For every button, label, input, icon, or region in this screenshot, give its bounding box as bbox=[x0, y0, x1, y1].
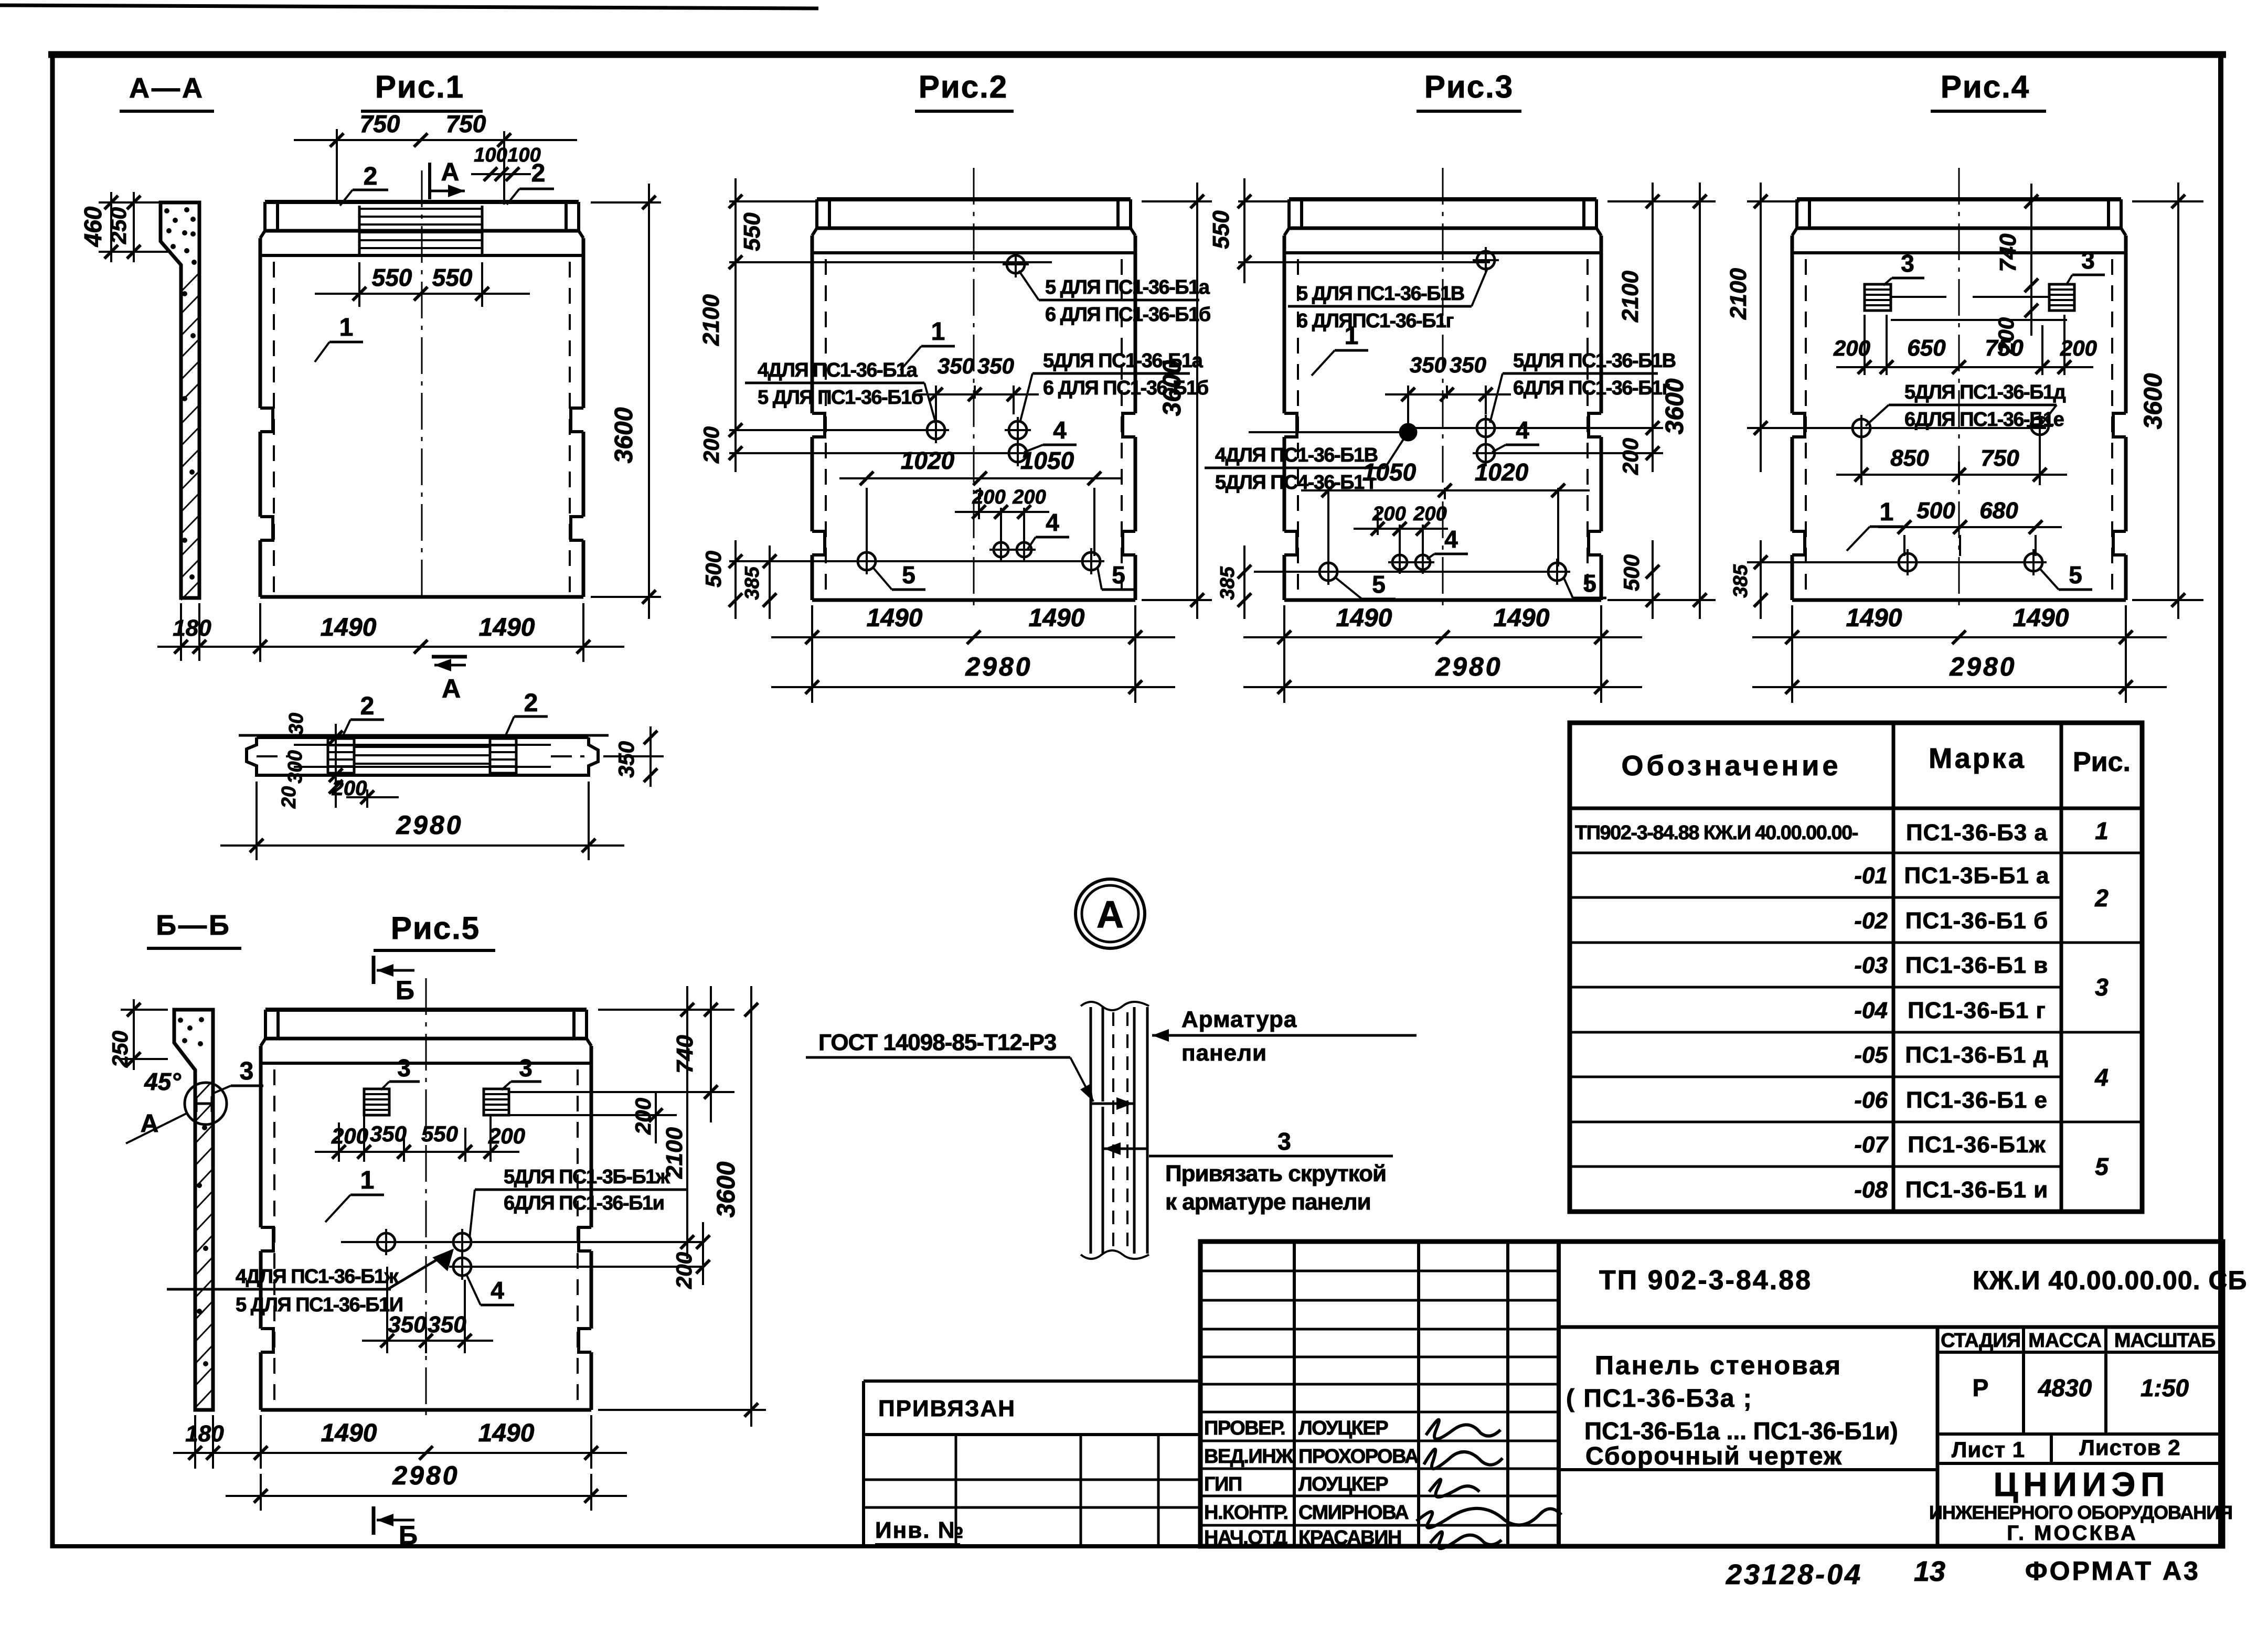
Ris.4 mid loops bbox=[1848, 415, 1875, 441]
svg-text:КРАСАВИН: КРАСАВИН bbox=[1298, 1527, 1401, 1549]
svg-text:350: 350 bbox=[938, 354, 974, 378]
svg-text:ИНЖЕНЕРНОГО ОБОРУДОВАНИЯ: ИНЖЕНЕРНОГО ОБОРУДОВАНИЯ bbox=[1929, 1502, 2232, 1523]
svg-text:180: 180 bbox=[173, 615, 211, 641]
Ris.2 bottom loops bbox=[854, 548, 880, 574]
Ris.4 dims 740 200 bbox=[2030, 184, 2032, 336]
svg-text:5: 5 bbox=[1583, 570, 1596, 597]
svg-text:ПС1-36-Б1а ... ПС1-36-Б1и): ПС1-36-Б1а ... ПС1-36-Б1и) bbox=[1584, 1417, 1898, 1445]
Ris.5 hatched blocks item 3 bbox=[364, 1089, 389, 1115]
svg-text:1490: 1490 bbox=[321, 614, 377, 641]
title block: name cell bbox=[1936, 1327, 1940, 1546]
Ris.2 left dim chain 500/385 bottom bbox=[734, 540, 737, 619]
svg-text:2100: 2100 bbox=[698, 294, 724, 346]
svg-text:Инв. №: Инв. № bbox=[875, 1517, 965, 1543]
svg-text:Рис.4: Рис.4 bbox=[1941, 69, 2030, 104]
svg-text:550: 550 bbox=[421, 1121, 458, 1146]
svg-text:350: 350 bbox=[1450, 352, 1486, 377]
Ris.5 dim 2980 bbox=[226, 1495, 627, 1497]
svg-text:1490: 1490 bbox=[1846, 604, 1902, 632]
title block: list row bbox=[1937, 1462, 2223, 1465]
svg-text:550: 550 bbox=[372, 264, 412, 291]
Ris.4 dim 200 650 750 200 bbox=[1864, 315, 1866, 375]
svg-text:Привязать скруткой: Привязать скруткой bbox=[1165, 1161, 1386, 1186]
svg-text:2: 2 bbox=[531, 159, 546, 187]
svg-text:Н.КОНТР.: Н.КОНТР. bbox=[1204, 1502, 1288, 1524]
svg-text:Сборочный чертеж: Сборочный чертеж bbox=[1585, 1442, 1843, 1470]
svg-text:350: 350 bbox=[614, 741, 638, 778]
Ris.1 plan dim 350 right bbox=[603, 755, 664, 757]
svg-text:2100: 2100 bbox=[1617, 271, 1643, 323]
svg-text:2: 2 bbox=[364, 163, 378, 190]
svg-text:2100: 2100 bbox=[662, 1127, 687, 1179]
svg-text:385: 385 bbox=[1217, 566, 1239, 600]
section A-A wall (hatched) bbox=[161, 202, 199, 598]
svg-text:650: 650 bbox=[1907, 335, 1946, 361]
svg-text:-06: -06 bbox=[1854, 1087, 1888, 1113]
svg-text:А: А bbox=[442, 674, 461, 703]
svg-text:1490: 1490 bbox=[321, 1419, 377, 1447]
svg-text:Рис.2: Рис.2 bbox=[919, 69, 1008, 104]
title block: signature table columns bbox=[1557, 1242, 1561, 1546]
svg-text:550: 550 bbox=[432, 264, 473, 291]
Ris.4 dim 500+680 bbox=[1903, 535, 1905, 556]
svg-text:Рис.: Рис. bbox=[2073, 747, 2131, 777]
svg-text:2980: 2980 bbox=[392, 1461, 459, 1490]
svg-text:5ДЛЯ ПС1-3Б-Б1ж: 5ДЛЯ ПС1-3Б-Б1ж bbox=[504, 1166, 670, 1188]
svg-text:Листов 2: Листов 2 bbox=[2079, 1435, 2180, 1460]
svg-text:5ДЛЯ ПС1-36-Б1В: 5ДЛЯ ПС1-36-Б1В bbox=[1513, 350, 1676, 372]
Ris.3 dim 2980 bbox=[1243, 686, 1642, 688]
svg-text:4: 4 bbox=[491, 1277, 504, 1304]
svg-text:4ДЛЯ ПС1-36-Б1ж: 4ДЛЯ ПС1-36-Б1ж bbox=[236, 1266, 399, 1288]
svg-text:-02: -02 bbox=[1854, 908, 1888, 934]
svg-text:1: 1 bbox=[2095, 817, 2109, 844]
panel Ris.3 outline bbox=[1284, 168, 1601, 605]
svg-text:СТАДИЯ: СТАДИЯ bbox=[1941, 1330, 2020, 1352]
svg-text:( ПС1-36-Б3а ;: ( ПС1-36-Б3а ; bbox=[1566, 1385, 1753, 1413]
svg-text:740: 740 bbox=[672, 1035, 698, 1074]
Ris.3 right dims 2100/200/500/3600 bbox=[1607, 200, 1716, 202]
svg-text:1490: 1490 bbox=[867, 604, 923, 632]
svg-text:ПС1-36-Б1 и: ПС1-36-Б1 и bbox=[1905, 1177, 2049, 1203]
svg-text:500: 500 bbox=[701, 551, 726, 587]
svg-text:ЛОУЦКЕР: ЛОУЦКЕР bbox=[1298, 1473, 1388, 1495]
Ris.5 section mark B top bbox=[372, 956, 376, 984]
svg-text:А—А: А—А bbox=[129, 72, 205, 104]
Ris.5 dim 200 350 550 200 bbox=[338, 1122, 340, 1162]
Ris.2 dim 1020+1050 bbox=[866, 488, 868, 556]
svg-text:550: 550 bbox=[1208, 210, 1234, 249]
svg-text:Рис.1: Рис.1 bbox=[375, 69, 464, 104]
svg-text:3600: 3600 bbox=[1158, 360, 1186, 416]
Ris.3 left dim 550 bbox=[1238, 200, 1291, 202]
panel Ris.5 outline bbox=[261, 978, 591, 1415]
svg-text:385: 385 bbox=[741, 566, 763, 600]
svg-text:ЛОУЦКЕР: ЛОУЦКЕР bbox=[1298, 1417, 1388, 1439]
svg-text:3: 3 bbox=[2081, 247, 2095, 274]
svg-text:1: 1 bbox=[1880, 498, 1894, 526]
svg-text:к арматуре панели: к арматуре панели bbox=[1165, 1189, 1371, 1215]
svg-text:300: 300 bbox=[284, 750, 306, 783]
signatures (squiggles) bbox=[1426, 1420, 1500, 1439]
drawing frame border bbox=[48, 51, 2226, 58]
svg-text:500: 500 bbox=[1916, 498, 1955, 523]
title block: doc number row bbox=[1559, 1325, 2223, 1329]
svg-text:200: 200 bbox=[631, 1098, 655, 1135]
svg-text:200: 200 bbox=[1413, 503, 1446, 525]
svg-text:200: 200 bbox=[1618, 438, 1643, 475]
svg-text:ЦНИИЭП: ЦНИИЭП bbox=[1994, 1465, 2170, 1503]
svg-text:Р: Р bbox=[1973, 1374, 1989, 1402]
svg-text:ПРОВЕР.: ПРОВЕР. bbox=[1204, 1417, 1285, 1439]
svg-text:Лист 1: Лист 1 bbox=[1952, 1437, 2025, 1462]
svg-text:СМИРНОВА: СМИРНОВА bbox=[1298, 1502, 1409, 1524]
A-A dim 460 bbox=[110, 192, 112, 262]
svg-text:1: 1 bbox=[931, 318, 945, 346]
svg-text:680: 680 bbox=[1979, 498, 2018, 523]
svg-text:-01: -01 bbox=[1854, 863, 1888, 889]
svg-text:200: 200 bbox=[699, 426, 723, 464]
svg-text:Обозначение: Обозначение bbox=[1621, 750, 1841, 782]
svg-text:ГОСТ 14098-85-Т12-Р3: ГОСТ 14098-85-Т12-Р3 bbox=[818, 1030, 1056, 1055]
svg-text:350: 350 bbox=[370, 1121, 407, 1146]
svg-text:1: 1 bbox=[339, 314, 354, 341]
Ris.4 dim 2980 bbox=[1752, 686, 2167, 688]
svg-text:5 ДЛЯ ПС1-36-Б1В: 5 ДЛЯ ПС1-36-Б1В bbox=[1297, 283, 1464, 305]
svg-text:740: 740 bbox=[1995, 233, 2021, 272]
Ris.2 mid loops bbox=[923, 417, 949, 443]
svg-text:1020: 1020 bbox=[901, 447, 955, 474]
Ris.3 mid loops bbox=[1400, 424, 1417, 441]
svg-text:3: 3 bbox=[397, 1054, 411, 1082]
svg-text:ФОРМАТ А3: ФОРМАТ А3 bbox=[2025, 1556, 2200, 1586]
svg-text:350: 350 bbox=[428, 1312, 466, 1338]
svg-text:23128-04: 23128-04 bbox=[1726, 1559, 1862, 1590]
Ris.3 left dim 385 bbox=[1243, 545, 1245, 619]
detail callout circle A bbox=[1076, 879, 1145, 948]
svg-text:350: 350 bbox=[388, 1312, 427, 1338]
svg-text:Г. МОСКВА: Г. МОСКВА bbox=[2007, 1522, 2137, 1545]
svg-text:4ДЛЯ ПС1-36-Б1В: 4ДЛЯ ПС1-36-Б1В bbox=[1215, 444, 1378, 466]
svg-text:200: 200 bbox=[332, 777, 367, 800]
svg-text:панели: панели bbox=[1181, 1040, 1267, 1066]
svg-text:-04: -04 bbox=[1854, 998, 1888, 1023]
title block: stadia/massa/masshtab bbox=[1937, 1351, 2223, 1354]
svg-text:ПРОХОРОВА: ПРОХОРОВА bbox=[1298, 1446, 1419, 1468]
svg-text:4: 4 bbox=[1444, 526, 1458, 553]
svg-text:-05: -05 bbox=[1854, 1042, 1888, 1068]
svg-text:550: 550 bbox=[739, 212, 765, 251]
Ris.1 section mark A top bbox=[428, 163, 431, 199]
svg-text:200: 200 bbox=[488, 1124, 525, 1148]
svg-text:250: 250 bbox=[108, 1031, 132, 1068]
svg-text:3600: 3600 bbox=[712, 1161, 740, 1217]
Ris.1 plan dims 30 300 20 200 bbox=[335, 724, 337, 808]
svg-text:2980: 2980 bbox=[396, 810, 463, 840]
svg-text:1020: 1020 bbox=[1475, 458, 1529, 486]
svg-text:ПРИВЯЗАН: ПРИВЯЗАН bbox=[878, 1396, 1016, 1421]
title block outline bbox=[1200, 1242, 2223, 1546]
Ris.2 dim 3600 right bbox=[1142, 200, 1212, 202]
svg-text:350: 350 bbox=[977, 354, 1014, 378]
svg-text:2100: 2100 bbox=[1726, 268, 1751, 320]
svg-text:2: 2 bbox=[360, 692, 375, 720]
svg-text:-07: -07 bbox=[1854, 1132, 1889, 1158]
svg-text:750: 750 bbox=[1980, 445, 2019, 471]
svg-text:3: 3 bbox=[1277, 1128, 1291, 1155]
svg-text:3: 3 bbox=[519, 1054, 533, 1082]
svg-text:20: 20 bbox=[278, 786, 300, 809]
svg-text:2980: 2980 bbox=[965, 652, 1032, 681]
svg-text:6ДЛЯ ПС1-36-Б1и: 6ДЛЯ ПС1-36-Б1и bbox=[504, 1192, 664, 1214]
B-B dim 180 bottom bbox=[194, 1415, 196, 1469]
svg-text:1: 1 bbox=[360, 1167, 375, 1194]
svg-text:Арматура: Арматура bbox=[1181, 1007, 1297, 1032]
svg-text:ТП902-3-84.88 КЖ.И 40.00.00.0: ТП902-3-84.88 КЖ.И 40.00.00.00- bbox=[1575, 822, 1858, 844]
Ris.3 top loop bbox=[1473, 247, 1499, 273]
svg-text:1: 1 bbox=[1345, 322, 1359, 350]
Ris.1 dim 750+750 bbox=[336, 129, 338, 204]
svg-text:3: 3 bbox=[2095, 974, 2109, 1001]
svg-text:ПС1-3Б-Б1 а: ПС1-3Б-Б1 а bbox=[1904, 863, 2049, 889]
svg-text:2980: 2980 bbox=[1949, 652, 2016, 681]
svg-text:6 ДЛЯПС1-36-Б1г: 6 ДЛЯПС1-36-Б1г bbox=[1297, 310, 1454, 332]
svg-text:850: 850 bbox=[1890, 445, 1929, 471]
Ris.1 dim 550+550 bbox=[358, 262, 360, 307]
Ris.1 plan rebar lines bbox=[354, 746, 490, 748]
svg-text:1050: 1050 bbox=[1020, 447, 1074, 474]
svg-text:1:50: 1:50 bbox=[2141, 1374, 2189, 1402]
svg-text:1050: 1050 bbox=[1362, 458, 1417, 486]
svg-text:Б—Б: Б—Б bbox=[156, 910, 231, 941]
svg-text:Панель стеновая: Панель стеновая bbox=[1595, 1351, 1842, 1380]
svg-text:ПС1-36-Б1 д: ПС1-36-Б1 д bbox=[1905, 1042, 2048, 1068]
svg-text:750: 750 bbox=[446, 110, 486, 137]
Ris.2 dim 1490+1490 bbox=[811, 605, 813, 703]
svg-text:180: 180 bbox=[185, 1421, 224, 1447]
svg-text:3600: 3600 bbox=[2139, 373, 2167, 429]
A-A dim 250 bbox=[133, 192, 135, 262]
Ris.2 dim 2980 bbox=[771, 686, 1175, 688]
svg-text:ПС1-36-Б1 г: ПС1-36-Б1 г bbox=[1908, 998, 2046, 1023]
svg-text:200: 200 bbox=[1833, 336, 1870, 360]
svg-text:НАЧ.ОТД: НАЧ.ОТД bbox=[1204, 1527, 1287, 1549]
svg-text:1490: 1490 bbox=[479, 614, 535, 641]
Ris.2 left dim chain 550/2100/200 bbox=[729, 200, 818, 202]
svg-text:5 ДЛЯ ПС1-36-Б1И: 5 ДЛЯ ПС1-36-Б1И bbox=[236, 1294, 403, 1316]
Ris.4 left dim 385 bbox=[1760, 540, 1762, 619]
svg-text:1490: 1490 bbox=[2013, 604, 2069, 632]
Ris.5 section mark B bottom bbox=[372, 1506, 376, 1535]
svg-text:4ДЛЯ ПС1-36-Б1а: 4ДЛЯ ПС1-36-Б1а bbox=[758, 359, 918, 381]
svg-text:4: 4 bbox=[1046, 509, 1059, 536]
svg-text:МАСШТАБ: МАСШТАБ bbox=[2114, 1330, 2215, 1352]
svg-text:А: А bbox=[141, 1110, 159, 1138]
Ris.1 plan dim 2980 bbox=[255, 782, 258, 860]
svg-text:5 ДЛЯ ПС1-36-Б1б: 5 ДЛЯ ПС1-36-Б1б bbox=[758, 387, 923, 409]
svg-text:2: 2 bbox=[524, 689, 538, 717]
svg-text:Б: Б bbox=[396, 976, 414, 1005]
svg-text:2980: 2980 bbox=[1435, 652, 1502, 681]
Ris.4 right dim 3600 bbox=[2132, 200, 2203, 202]
svg-text:А: А bbox=[441, 158, 460, 186]
title block: signature table rows bbox=[1200, 1270, 1559, 1272]
svg-text:Б: Б bbox=[399, 1521, 418, 1550]
Ris.5 dim 350+350 bbox=[386, 1267, 388, 1353]
svg-text:6ДЛЯ ПС1-36-Б1г: 6ДЛЯ ПС1-36-Б1г bbox=[1513, 377, 1670, 399]
svg-text:500: 500 bbox=[1619, 554, 1644, 591]
designation table (Oboznachenie/Marka/Ris) bbox=[1570, 723, 2142, 1212]
svg-text:6 ДЛЯ ПС1-36-Б1б: 6 ДЛЯ ПС1-36-Б1б bbox=[1045, 304, 1210, 326]
Ris.3 dim 1050+1020 bbox=[1327, 488, 1329, 566]
svg-text:2: 2 bbox=[2094, 884, 2109, 912]
svg-text:3: 3 bbox=[1901, 250, 1914, 277]
svg-text:5: 5 bbox=[902, 561, 915, 589]
svg-text:1490: 1490 bbox=[1029, 604, 1085, 632]
svg-text:5 ДЛЯ ПС1-36-Б1а: 5 ДЛЯ ПС1-36-Б1а bbox=[1045, 276, 1210, 298]
svg-text:ПС1-36-Б3 а: ПС1-36-Б3 а bbox=[1906, 820, 2048, 846]
svg-text:ВЕД.ИНЖ: ВЕД.ИНЖ bbox=[1204, 1446, 1294, 1468]
B-B weld detail circle bbox=[185, 1083, 227, 1125]
svg-text:Рис.5: Рис.5 bbox=[391, 911, 480, 946]
svg-text:45°: 45° bbox=[144, 1068, 181, 1095]
svg-text:200: 200 bbox=[331, 1124, 368, 1148]
Ris.3 bottom loops bbox=[1315, 559, 1341, 585]
svg-text:А: А bbox=[1096, 894, 1124, 936]
Ris.4 left dim 2100 bbox=[1747, 200, 1800, 202]
svg-text:МАССА: МАССА bbox=[2028, 1330, 2102, 1352]
B-B dim 250 bbox=[133, 999, 135, 1070]
svg-text:1490: 1490 bbox=[478, 1419, 535, 1447]
scan artifact top edge bbox=[0, 5, 818, 8]
svg-text:ПС1-36-Б1 в: ПС1-36-Б1 в bbox=[1905, 953, 2049, 978]
svg-text:1490: 1490 bbox=[1336, 604, 1392, 632]
svg-text:385: 385 bbox=[1730, 564, 1752, 597]
Ris.4 dim 850+750 bbox=[1860, 441, 1862, 485]
svg-text:Рис.3: Рис.3 bbox=[1424, 69, 1514, 104]
section B-B wall (hatched) bbox=[174, 1010, 213, 1410]
Ris.5 right dims 200 3600 bbox=[702, 1222, 704, 1285]
Ris.2 small loops bbox=[989, 538, 1013, 561]
weld joint detail bbox=[1081, 1002, 1149, 1259]
svg-text:200: 200 bbox=[2060, 336, 2097, 360]
svg-text:5ДЛЯ ПС1-36-Б1д: 5ДЛЯ ПС1-36-Б1д bbox=[1904, 381, 2066, 403]
svg-text:5: 5 bbox=[1112, 561, 1125, 589]
Ris.3 dim 1490+1490 bbox=[1283, 605, 1285, 703]
panel Ris.1 outline bbox=[260, 170, 583, 602]
svg-text:4: 4 bbox=[1053, 416, 1067, 444]
svg-text:30: 30 bbox=[285, 713, 307, 735]
Ris.1 rebar comb on top band bbox=[359, 206, 482, 257]
Ris.1 section mark A bottom bbox=[432, 655, 467, 659]
panel Ris.4 outline bbox=[1792, 168, 2126, 605]
svg-text:200: 200 bbox=[672, 1252, 696, 1289]
A-A dim 180 bottom bbox=[180, 603, 182, 661]
svg-text:3600: 3600 bbox=[610, 407, 638, 463]
svg-text:200: 200 bbox=[972, 486, 1005, 508]
svg-text:ПС1-36-Б1ж: ПС1-36-Б1ж bbox=[1908, 1132, 2046, 1158]
svg-text:4830: 4830 bbox=[2038, 1374, 2092, 1402]
svg-text:750: 750 bbox=[360, 110, 400, 137]
svg-text:460: 460 bbox=[79, 206, 107, 247]
svg-text:350: 350 bbox=[1410, 352, 1446, 377]
Ris.3 small loops bbox=[1388, 551, 1411, 574]
svg-text:100: 100 bbox=[474, 144, 507, 166]
svg-text:3: 3 bbox=[240, 1057, 254, 1085]
Ris.4 hatched blocks item 3 bbox=[1865, 284, 1891, 311]
Ris.1 dim 1490+1490 bbox=[259, 603, 261, 662]
svg-text:750: 750 bbox=[1985, 335, 2024, 361]
svg-text:ГИП: ГИП bbox=[1204, 1473, 1242, 1495]
svg-text:ПС1-36-Б1 е: ПС1-36-Б1 е bbox=[1906, 1087, 2048, 1113]
Ris.1 dim 3600 right bbox=[591, 201, 661, 204]
svg-text:4: 4 bbox=[2094, 1064, 2109, 1091]
svg-text:ПС1-36-Б1 б: ПС1-36-Б1 б bbox=[1905, 908, 2049, 934]
svg-text:13: 13 bbox=[1914, 1556, 1945, 1587]
svg-text:3600: 3600 bbox=[1661, 378, 1689, 434]
svg-text:4: 4 bbox=[1516, 416, 1529, 444]
svg-text:5: 5 bbox=[1372, 571, 1386, 598]
Ris.5 right dims 740 200 2100 bbox=[598, 1009, 734, 1011]
svg-text:5: 5 bbox=[2069, 561, 2082, 589]
svg-text:250: 250 bbox=[106, 207, 131, 244]
svg-text:ТП 902-3-84.88: ТП 902-3-84.88 bbox=[1599, 1265, 1812, 1296]
svg-text:-03: -03 bbox=[1854, 953, 1888, 978]
Ris.2 top loop bbox=[1003, 251, 1029, 277]
svg-text:Марка: Марка bbox=[1929, 743, 2026, 774]
left attachment strip (privyazan) bbox=[864, 1379, 1200, 1383]
svg-text:5: 5 bbox=[2095, 1153, 2109, 1180]
panel Ris.2 outline bbox=[812, 168, 1135, 605]
svg-text:-08: -08 bbox=[1854, 1177, 1888, 1203]
Ris.5 loops bbox=[373, 1229, 399, 1255]
svg-text:1490: 1490 bbox=[1494, 604, 1550, 632]
svg-text:КЖ.И 40.00.00.00. СБ: КЖ.И 40.00.00.00. СБ bbox=[1973, 1266, 2247, 1295]
Ris.1 plan hatched blocks item 2 bbox=[328, 739, 354, 773]
Ris.4 dim 1490+1490 bbox=[1791, 605, 1793, 703]
Ris.4 bottom loops bbox=[1894, 549, 1921, 575]
Ris.5 dim 1490+1490 bbox=[260, 1415, 262, 1469]
Ris.1 plan view bar bbox=[239, 735, 609, 775]
